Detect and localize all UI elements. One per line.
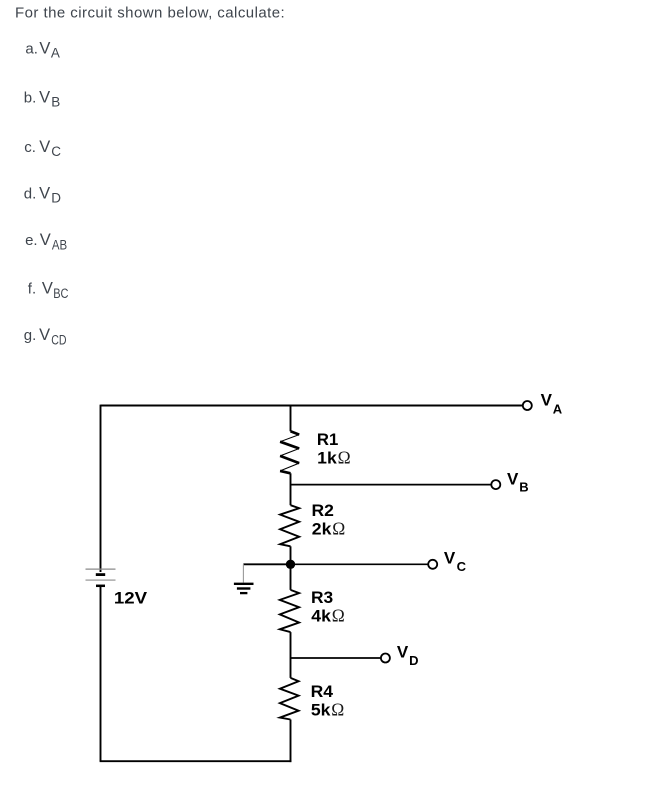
svg-text:c.: c. xyxy=(24,139,36,156)
svg-text:Ω: Ω xyxy=(331,700,344,720)
svg-text:12V: 12V xyxy=(114,588,148,607)
ground bar 1 xyxy=(234,583,254,585)
svg-text:B: B xyxy=(519,480,528,495)
svg-text:V: V xyxy=(39,88,50,106)
battery plate long 1 xyxy=(86,568,116,570)
svg-text:V: V xyxy=(40,231,51,249)
wire battery bottom lead xyxy=(100,586,102,761)
svg-text:V: V xyxy=(39,138,50,156)
terminal VA xyxy=(523,401,532,410)
resistor R2 xyxy=(280,505,299,546)
svg-text:R4: R4 xyxy=(311,682,334,701)
svg-text:R1: R1 xyxy=(317,430,338,449)
battery plate short thick xyxy=(96,573,105,576)
svg-text:BC: BC xyxy=(53,286,68,301)
svg-text:b.: b. xyxy=(24,89,37,106)
svg-text:Ω: Ω xyxy=(338,448,351,468)
svg-text:V: V xyxy=(42,280,53,298)
svg-text:V: V xyxy=(444,548,456,567)
wire left vertical (battery top lead) xyxy=(100,405,102,572)
terminal VD xyxy=(381,654,390,663)
wire chain bottom xyxy=(290,720,292,763)
wire node to ground xyxy=(243,563,290,565)
wire chain top xyxy=(290,406,292,432)
svg-text:V: V xyxy=(507,469,519,488)
wire bottom horizontal xyxy=(100,760,292,762)
svg-text:d.: d. xyxy=(24,185,37,202)
battery plate long 2 xyxy=(86,579,116,581)
node junction dot xyxy=(286,560,295,569)
svg-text:2k: 2k xyxy=(312,520,332,539)
svg-text:Ω: Ω xyxy=(332,606,345,626)
battery plate short 2 xyxy=(96,585,105,588)
svg-text:V: V xyxy=(541,390,553,409)
wire VB tap xyxy=(291,484,492,486)
svg-text:CD: CD xyxy=(51,333,66,348)
svg-text:f.: f. xyxy=(28,281,36,298)
svg-text:V: V xyxy=(397,642,409,661)
svg-text:C: C xyxy=(51,144,61,159)
svg-text:V: V xyxy=(39,326,50,344)
svg-text:R2: R2 xyxy=(312,501,334,520)
svg-text:C: C xyxy=(457,559,467,574)
wire R1 to R2 xyxy=(290,473,292,505)
svg-text:For the circuit shown below, c: For the circuit shown below, calculate: xyxy=(15,5,285,22)
svg-text:g.: g. xyxy=(24,327,37,344)
svg-text:A: A xyxy=(51,46,60,61)
terminal VB xyxy=(491,480,500,489)
svg-text:D: D xyxy=(51,191,61,206)
wire R2 to R3 through node xyxy=(290,546,292,590)
wire VC tap xyxy=(291,563,429,565)
ground bar 2 xyxy=(237,587,251,589)
svg-text:R3: R3 xyxy=(311,588,333,607)
wire VD tap xyxy=(291,657,382,659)
svg-text:A: A xyxy=(553,401,563,416)
terminal VC xyxy=(428,560,437,569)
resistor R3 xyxy=(280,590,299,632)
svg-text:B: B xyxy=(51,95,60,110)
svg-text:1k: 1k xyxy=(317,449,337,468)
resistor R1 xyxy=(280,431,299,473)
svg-text:D: D xyxy=(409,653,418,668)
svg-text:V: V xyxy=(39,39,50,57)
svg-text:a.: a. xyxy=(25,40,38,57)
svg-text:AB: AB xyxy=(52,238,67,253)
svg-text:V: V xyxy=(39,184,50,202)
svg-text:e.: e. xyxy=(25,232,38,249)
wire top horizontal xyxy=(101,405,523,407)
resistor R4 xyxy=(280,678,299,720)
svg-text:Ω: Ω xyxy=(332,519,345,539)
ground stem xyxy=(242,564,244,582)
wire R3 to R4 xyxy=(290,632,292,678)
svg-text:4k: 4k xyxy=(311,607,331,626)
svg-text:5k: 5k xyxy=(311,701,331,720)
ground bar 3 xyxy=(240,592,247,594)
